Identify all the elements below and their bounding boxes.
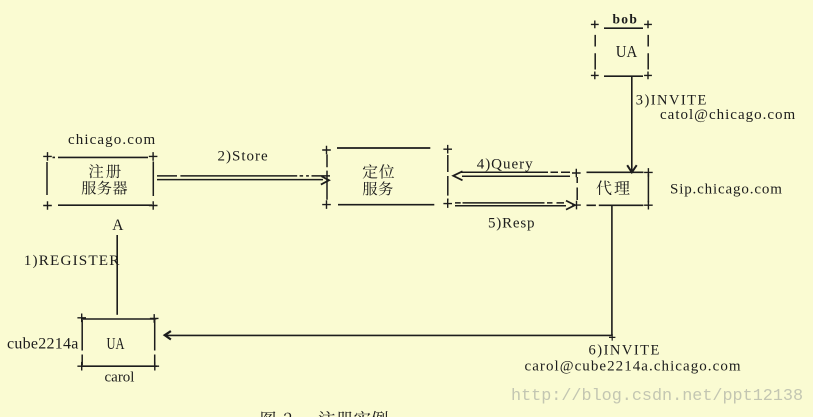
arrow 4)Query upper line: [461, 171, 571, 173]
box proxy bottom edge (dashed): [587, 204, 644, 206]
box location corner TR: [443, 145, 452, 154]
arrow 2)Store lower line: [157, 179, 323, 181]
box registrar corner BL: [43, 201, 52, 210]
arrowhead 4)Query (left): [453, 171, 462, 180]
arrow 5)Resp upper line: [455, 202, 564, 204]
box UA-carol corner BR: [151, 362, 160, 371]
box registrar corner BR: [149, 201, 158, 210]
box UA-bob right edge (dashed): [647, 35, 649, 70]
svg-text:6)INVITE: 6)INVITE: [589, 343, 661, 359]
box UA-bob bottom edge: [604, 75, 643, 77]
arrowhead 2)Store (right): [321, 176, 329, 184]
box proxy corner BR: [644, 201, 653, 210]
box UA-carol corner TL: [77, 314, 86, 323]
box proxy corner TR: [644, 168, 653, 177]
box registrar corner TR: [149, 152, 158, 161]
box UA-bob top edge: [604, 27, 643, 29]
svg-text:cube2214a: cube2214a: [7, 336, 79, 353]
box UA-carol top edge: [82, 318, 156, 320]
arrow 5)Resp lower line: [455, 205, 566, 207]
box registrar corner TL: [43, 152, 52, 161]
box proxy top edge: [587, 171, 644, 173]
box location label line1 定位: [363, 164, 378, 178]
wire 6)INVITE vertical: [611, 206, 613, 336]
svg-text:1)REGISTER: 1)REGISTER: [24, 252, 121, 269]
box proxy right edge: [647, 174, 649, 203]
box proxy label 代理: [597, 180, 612, 195]
arrowhead 3)INVITE (down): [627, 165, 637, 172]
box UA-bob corner handle BL: [591, 72, 599, 80]
box location corner TL: [322, 146, 331, 155]
box proxy corner TL: [572, 169, 581, 178]
arrow 2)Store upper line: [157, 175, 330, 177]
box UA-bob left edge (dashed): [594, 35, 596, 70]
arrowhead 5)Resp (right): [566, 201, 575, 210]
svg-text:catol@chicago.com: catol@chicago.com: [660, 107, 796, 123]
caption 图2 注册实例 (clipped at bottom): [261, 411, 275, 417]
svg-text:4)Query: 4)Query: [477, 157, 534, 173]
svg-text:Sip.chicago.com: Sip.chicago.com: [670, 182, 783, 198]
box registrar right edge: [152, 162, 154, 197]
box location right edge (dashed): [447, 155, 449, 201]
arrowhead 6)INVITE (left): [165, 331, 171, 339]
svg-text:UA: UA: [616, 42, 638, 61]
box UA-carol corner TR: [150, 314, 159, 323]
box registrar bottom edge: [58, 204, 152, 206]
box UA-bob corner handle TL: [591, 21, 599, 29]
box registrar top edge: [53, 156, 149, 158]
box location top edge: [337, 147, 430, 149]
wire 6)INVITE horizontal: [166, 334, 612, 336]
box registrar label line1 注册: [89, 164, 103, 178]
svg-text:http://blog.csdn.net/ppt12138: http://blog.csdn.net/ppt12138: [511, 387, 803, 406]
box registrar left edge: [46, 162, 48, 195]
box proxy left edge (dashed): [576, 177, 578, 200]
box UA-carol bottom edge: [82, 365, 157, 367]
svg-text:A: A: [112, 217, 124, 234]
box location corner BR: [443, 199, 452, 208]
wire 3)INVITE vertical: [631, 77, 633, 172]
svg-text:2)Store: 2)Store: [218, 148, 269, 164]
handle 6)INVITE corner: [609, 334, 615, 340]
svg-text:bob: bob: [613, 11, 639, 26]
box location left edge (dashed): [326, 154, 328, 199]
box UA-carol right edge: [154, 320, 156, 365]
arrow 4)Query lower line: [462, 175, 570, 177]
box location bottom edge: [338, 204, 434, 206]
svg-text:chicago.com: chicago.com: [68, 132, 156, 148]
box location label line2 服务: [363, 182, 377, 196]
box UA-bob corner handle BR: [644, 72, 652, 80]
svg-text:carol: carol: [105, 370, 135, 386]
box proxy corner BL: [572, 201, 581, 210]
box UA-carol corner BL: [77, 362, 86, 371]
box UA-carol left edge: [81, 320, 83, 365]
box registrar label line2 服务器: [82, 181, 96, 195]
svg-text:carol@cube2214a.chicago.com: carol@cube2214a.chicago.com: [525, 358, 742, 374]
box UA-bob corner handle TR: [644, 21, 652, 29]
svg-text:5)Resp: 5)Resp: [488, 216, 535, 232]
box location corner BL: [322, 200, 331, 209]
wire 1)REGISTER vertical: [116, 235, 118, 315]
svg-text:UA: UA: [107, 334, 125, 353]
